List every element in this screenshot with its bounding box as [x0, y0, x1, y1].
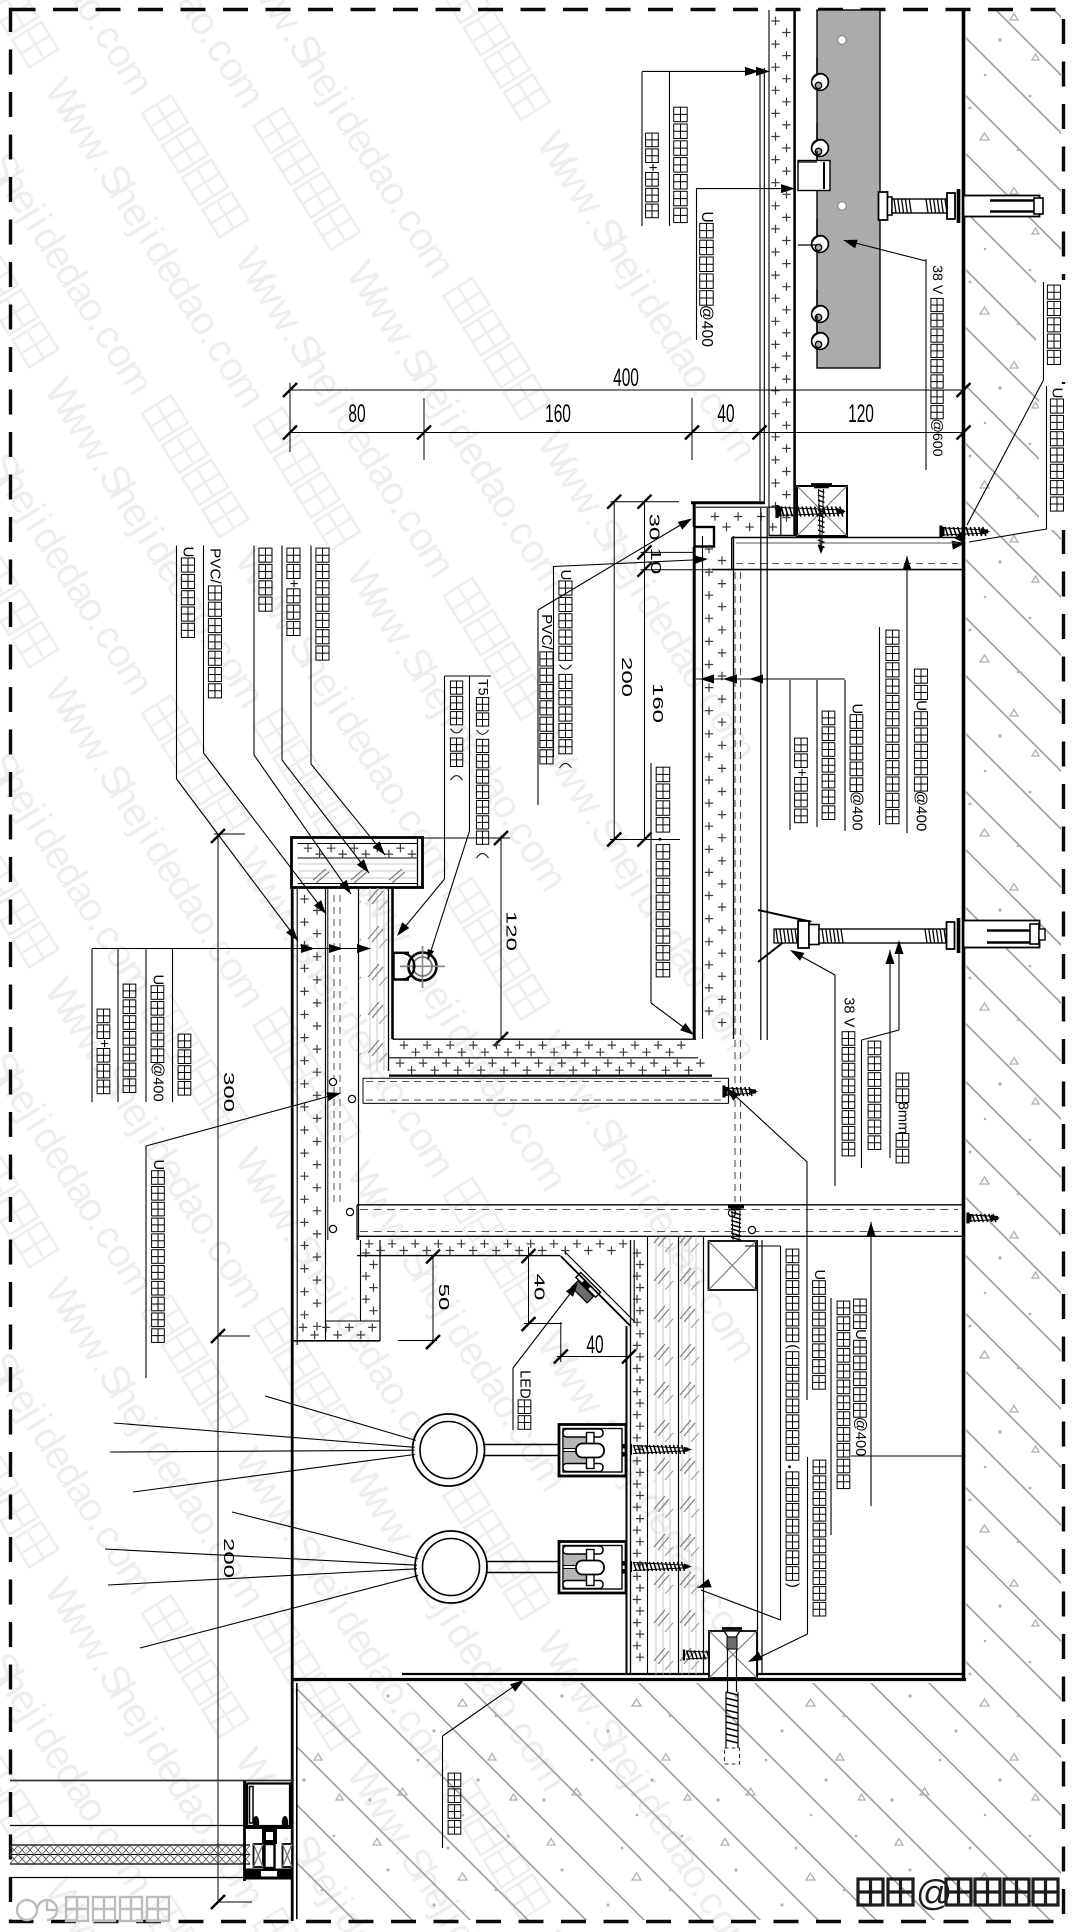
svg-text:40: 40: [717, 400, 734, 428]
svg-text:): ): [785, 1583, 801, 1588]
38 vertical carrier behind fascia: [760, 508, 762, 1040]
label group: putty joint + fiber mesh tape: [650, 763, 652, 1003]
svg-text:80: 80: [348, 400, 365, 428]
X wood block lower: [709, 1241, 757, 1290]
bottom-right label group: [867, 1222, 876, 1236]
step inner layers: [298, 843, 418, 845]
svg-text:U: U: [698, 211, 715, 222]
toutiao credit bottom right: [858, 1872, 1058, 1913]
bottom X block with vertical fixing screw: [709, 1631, 757, 1678]
finish face double line (ceiling surface near wall): [759, 68, 761, 501]
label: vertical spacing staggered (upper): [879, 627, 881, 825]
screw at channel end into fascia: [722, 1086, 725, 1098]
svg-text:U: U: [180, 547, 197, 558]
bottom edge of lower ceiling assembly: [292, 1678, 966, 1681]
38 V-type carrier channel (gray strip): [817, 10, 880, 368]
svg-text:+: +: [793, 768, 809, 777]
label: PVC/metal corner bead (center): [537, 610, 539, 805]
svg-text:U: U: [1049, 388, 1066, 399]
wall paint label: [442, 1736, 444, 1848]
svg-text:50: 50: [435, 1284, 451, 1311]
left hatch block edge double line: [291, 837, 294, 1921]
anchor into floor below: [726, 1692, 738, 1743]
svg-text:@400: @400: [150, 1062, 166, 1101]
step gyp row with plus: [780, 507, 782, 536]
fascia gyp column with plus hatch: [702, 536, 704, 1039]
window head lines: [10, 1780, 294, 1782]
curtain wall mullion detail: [243, 1781, 246, 1881]
svg-text:+: +: [285, 579, 302, 588]
label: wood keel positioning (top right): [1036, 280, 1066, 382]
cove ceiling surface line: [712, 569, 964, 571]
svg-text:200: 200: [220, 1538, 236, 1578]
fascia gyp + column: [647, 1236, 649, 1674]
left step outer thick box: [292, 838, 423, 888]
svg-text:@600: @600: [929, 418, 945, 456]
svg-text:U: U: [852, 1329, 868, 1340]
V-clip box on carrier: [798, 161, 830, 191]
wall face line: [962, 10, 966, 1679]
watermark diagonal repeated text: [0, 0, 766, 1932]
40 dim (chamfer vertical): [528, 1247, 530, 1324]
left assembly vertical layers: [325, 888, 327, 1340]
label: U-type edge channel positioning (top right): [1039, 384, 1067, 530]
300 and 200 dims left: [217, 836, 219, 1902]
svg-text:U: U: [913, 700, 930, 711]
hidden U channel dashed inside fascia: [734, 572, 736, 1202]
upper slab double gyp with plus: [393, 1038, 697, 1040]
svg-text:120: 120: [503, 911, 519, 951]
screws through fascia at profiles: [630, 1444, 632, 1455]
label: U edge channel positioning (bottom): [806, 1267, 808, 1400]
svg-text:PVC/: PVC/: [538, 614, 555, 650]
labels mid-right: U type furring/gyp/putty: [789, 680, 791, 830]
chamfer cut with LED bracket: [561, 1256, 631, 1326]
svg-text:8mm: 8mm: [895, 1102, 911, 1135]
svg-text:LED: LED: [517, 1370, 533, 1399]
step top ext line: [423, 837, 510, 839]
label group A: gypsum + putty (top): [641, 72, 643, 226]
label: double plywood dovetail joints staggered: [780, 1246, 782, 1620]
svg-text:38 V: 38 V: [841, 997, 857, 1027]
X wood block on step: [797, 486, 847, 536]
svg-text:+: +: [96, 1039, 112, 1048]
dimension chain 400 / 80 160 40 120: [290, 389, 964, 391]
svg-text:U: U: [849, 703, 865, 714]
svg-text:30: 30: [646, 514, 662, 541]
left label group with leader: [91, 949, 93, 1102]
svg-text:T5: T5: [475, 679, 491, 696]
concrete wall hatch right side and bottom: [296, 10, 1061, 1920]
fascia face below notch: [693, 547, 696, 1040]
fascia face double line: [626, 1326, 628, 1674]
svg-text:160: 160: [649, 683, 665, 723]
screw fixing top channel to wall: [939, 526, 942, 538]
svg-text:200: 200: [618, 657, 634, 697]
label: vertical U furring @400 (upper): [903, 556, 912, 570]
svg-text:400: 400: [613, 364, 639, 392]
svg-text:40: 40: [531, 1274, 547, 1301]
svg-text:@400: @400: [913, 791, 930, 832]
svg-text:160: 160: [545, 400, 571, 428]
upper slab hidden channel: [363, 1077, 729, 1079]
svg-text:@400: @400: [852, 1417, 868, 1456]
svg-text:+: +: [644, 163, 660, 172]
40 dim (chamfer horizontal): [560, 1322, 562, 1362]
metal U trim notch: [695, 527, 715, 547]
gypsum board strip with plus hatch (top): [768, 10, 770, 536]
labels: 38 V carrier longitudinal / joints staggered / 8mm rod: [793, 952, 836, 976]
lamp bracket / reflector: [394, 953, 410, 980]
label: U metal clip strip (same color as paint): [553, 566, 555, 757]
svg-text:U: U: [150, 974, 166, 985]
L-step bottom return: [360, 1240, 362, 1321]
svg-text:U: U: [150, 1159, 166, 1170]
T5 lamp symbol: [400, 965, 445, 967]
svg-text:(: (: [785, 1344, 801, 1349]
lamp detail circles with rays: [413, 1414, 485, 1486]
stems from circles to LED profiles: [483, 1445, 566, 1456]
label: wood block fixed with steel nails: [807, 1457, 809, 1634]
labels: T5 tube / tin reflector: [444, 676, 446, 879]
svg-text:40: 40: [586, 1331, 603, 1359]
label: U-type furring channel @400 (top): [696, 189, 698, 340]
lower slab gyp band: [357, 1255, 561, 1257]
horizontal screw through step into block: [775, 505, 778, 518]
vertical screw into step block: [811, 483, 832, 486]
middle anchor bolt with V hanger: [758, 910, 810, 962]
svg-text:38 V: 38 V: [929, 265, 945, 295]
screw into wall at lower channel right end: [966, 1213, 969, 1224]
daishu kuajing watermark bottom-left: [17, 1897, 169, 1921]
svg-text:120: 120: [848, 400, 874, 428]
svg-text:PVC/: PVC/: [207, 548, 224, 584]
svg-text:@400: @400: [698, 305, 715, 347]
label: 38 V-type carrier horizontal @600: [846, 241, 927, 262]
step thick cap: [691, 501, 765, 504]
top anchor bolt through wall: [879, 192, 888, 220]
lower slab channel band: [357, 1204, 963, 1206]
svg-text:U: U: [557, 570, 574, 581]
top U channel against wall: [732, 537, 963, 539]
fascia back lines: [757, 1240, 759, 1674]
label fan group B: [310, 546, 312, 765]
label: U furring vertical-horizontal joint: [145, 1146, 147, 1378]
label: LED strip: [512, 1368, 514, 1430]
svg-text:300: 300: [220, 1072, 236, 1112]
LED profile sections on fascia: [559, 1425, 626, 1477]
vertical screw through lower channel into block: [728, 1206, 744, 1209]
leaders from right labels to top channel: [967, 380, 1044, 525]
svg-text:@400: @400: [849, 791, 865, 830]
50 dim (left step drop): [432, 1257, 434, 1343]
insulation zigzag band: [10, 1854, 250, 1856]
120 dim (step to slab): [500, 836, 502, 1040]
svg-text:U: U: [811, 1269, 827, 1280]
fascia wood strips: [649, 1237, 678, 1675]
dims 30 / 10 / 200 / 160: [611, 501, 680, 503]
